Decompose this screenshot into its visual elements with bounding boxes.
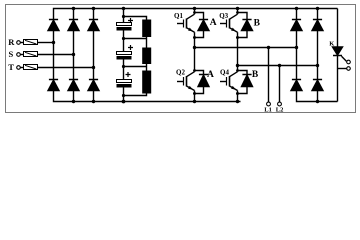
wire R phase line [20,42,53,44]
wire cap-resistor bottom link [124,94,147,96]
node R-col1 junction [52,41,55,44]
wire left bridge column 1 [53,31,55,80]
thyristor K [333,9,343,102]
terminal K gate [347,60,351,64]
svg-text:L2: L2 [276,106,284,113]
svg-text:Q3: Q3 [219,12,228,20]
diode B (Q4 anti-parallel) [238,71,253,94]
fuse F3 (T phase) [24,65,38,70]
wire left bridge column 2 [73,9,75,102]
wire K cathode stub [338,68,347,70]
resistor R3 (balancing) [142,71,151,94]
wire bottom DC- rail (left segment) [54,91,241,102]
wire output bridge column 1 [296,9,298,80]
diode D3 (left bridge top, col 3) [88,20,99,31]
transistor Q4 (IGBT) [220,66,238,102]
svg-text:R: R [8,37,15,47]
svg-text:T: T [8,62,14,72]
wire cap-resistor mid link 1 [124,37,147,48]
capacitor C3 [117,72,132,88]
wire L1 drop [268,48,270,103]
svg-text:B: B [254,19,261,29]
diode D4 (left bridge bottom, col 1) [48,80,59,91]
diode D1 (left bridge top, col 1) [48,20,59,31]
resistor R1 (balancing) [142,20,151,38]
wire output bridge column 2 [317,9,319,102]
wire K gate lead [342,56,347,61]
fuse F2 (S phase) [24,52,38,57]
wire cap-resistor mid link 2 [124,64,147,71]
wire left bridge column 3 [93,9,95,102]
terminal L1 [267,102,271,106]
terminal K cathode [347,67,351,71]
node L2 line junctions [236,64,319,67]
diode D5 (left bridge bottom, col 2) [68,80,79,91]
diode D7 (output bridge top, col 1) [291,20,302,31]
node cap branch junctions [122,7,126,104]
svg-text:A: A [207,70,214,80]
svg-text:L1: L1 [264,106,272,113]
node T-col3 junction [92,66,95,69]
wire bottom rail of output bridge [297,91,338,102]
terminal T [17,66,21,70]
resistor R2 (balancing) [142,48,151,65]
diode D2 (left bridge top, col 2) [68,20,79,31]
node rail junctions left bridge [72,7,95,103]
wire S phase line [20,54,73,56]
wire capacitor branch [123,9,125,102]
node output bridge rail junctions [295,7,319,103]
transistor Q3 (IGBT) [220,9,238,66]
terminal S [17,53,21,57]
diode D9 (output bridge bottom, col 1) [291,80,302,91]
node inverter rail junctions [193,7,239,103]
terminal R [17,41,21,45]
svg-text:K: K [329,40,334,47]
diode B (Q3 anti-parallel) [238,13,253,38]
transistor Q2 (IGBT) [177,48,195,102]
svg-text:Q1: Q1 [174,12,183,20]
svg-text:Q4: Q4 [220,68,229,76]
diode D8 (output bridge top, col 2) [312,20,323,31]
transistor Q1 (IGBT) [177,9,195,48]
wire L2 drop [279,66,281,103]
diode D10 (output bridge bottom, col 2) [312,80,323,91]
svg-text:S: S [9,49,14,59]
diode A (Q2 anti-parallel) [195,71,210,94]
node L1 line junctions [193,46,298,49]
wire top DC+ rail [54,9,338,20]
capacitor C1 [117,18,134,31]
wire output node L1 (leg1 midpoint) [195,47,297,49]
svg-text:Q2: Q2 [176,69,185,77]
fuse F1 (R phase) [24,40,38,45]
terminal L2 [278,102,282,106]
wire cap-resistor top link [124,17,147,20]
svg-text:A: A [210,18,217,28]
diode D6 (left bridge bottom, col 3) [88,80,99,91]
svg-text:B: B [252,70,259,80]
diode A (Q1 anti-parallel) [195,13,210,38]
wire T phase line [20,67,93,69]
wire output node L2 (leg2 midpoint) [238,65,318,67]
capacitor C2 [117,45,134,60]
node S-col2 junction [72,53,75,56]
